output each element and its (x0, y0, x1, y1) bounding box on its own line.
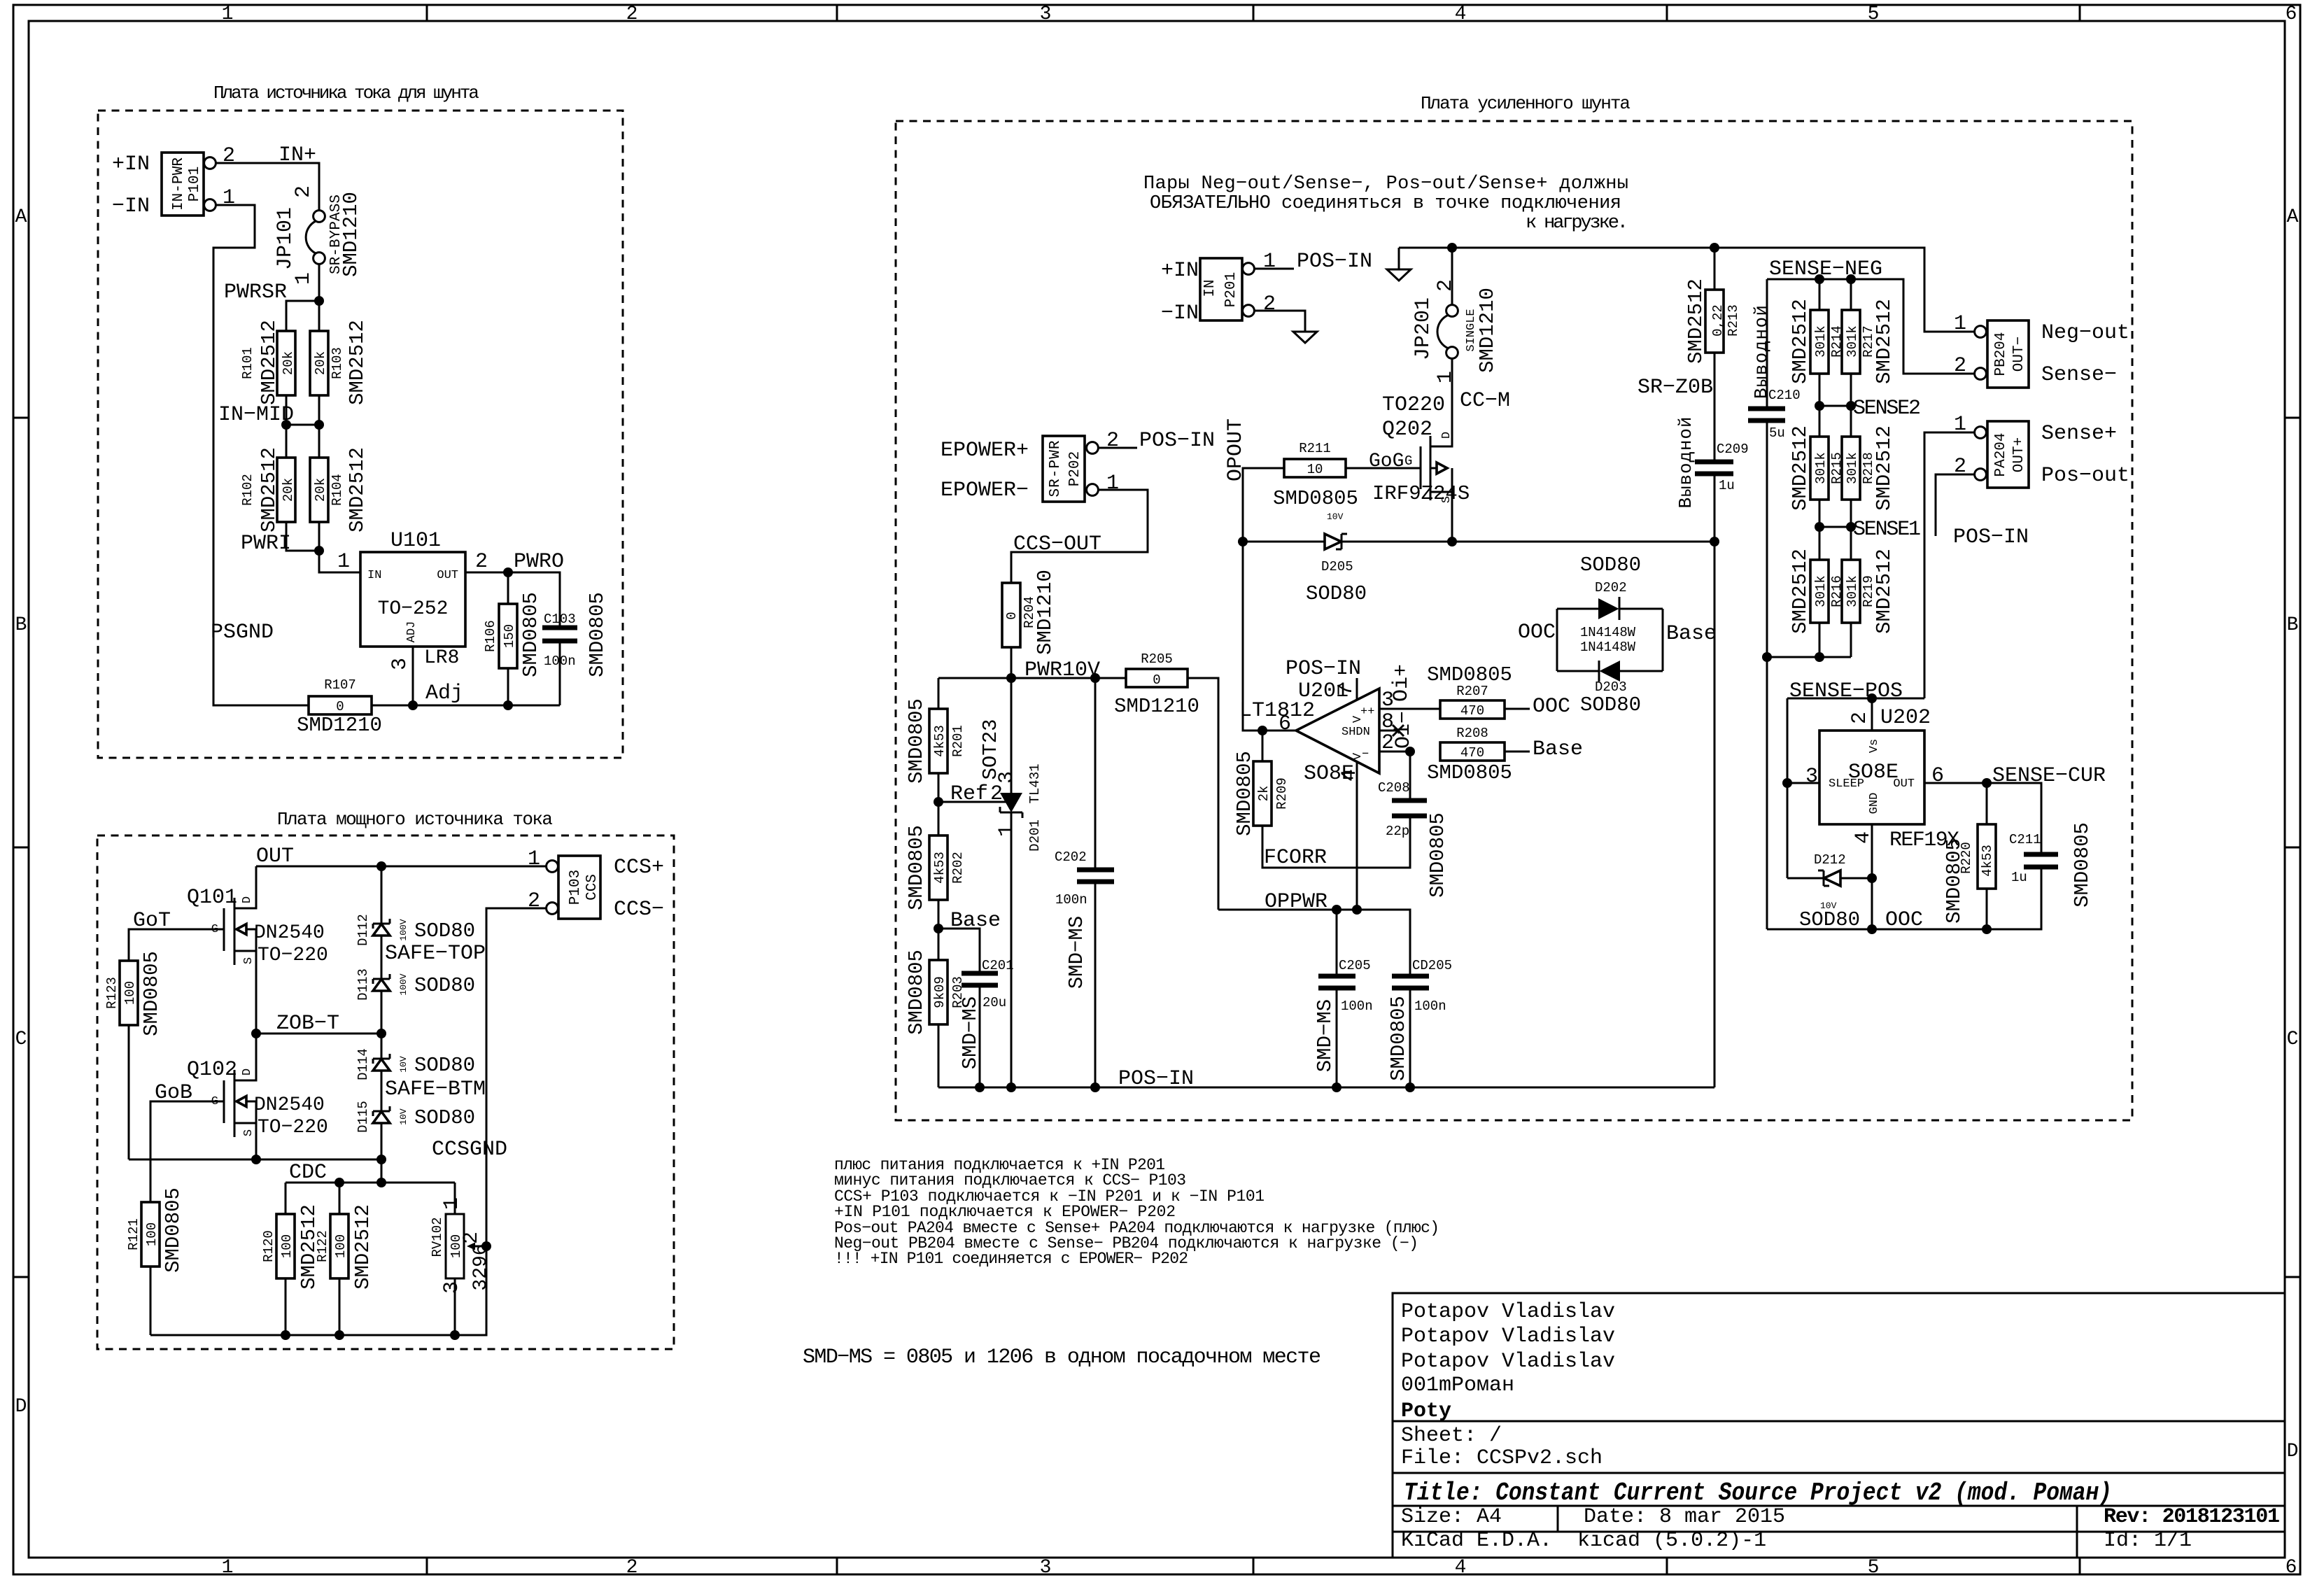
svg-text:JP101: JP101 (274, 207, 297, 270)
wire R123 bottom to CCSGND (128, 1025, 130, 1159)
svg-text:SMD1210: SMD1210 (339, 192, 362, 277)
junction RV102 wiper (481, 1241, 491, 1251)
svg-text:SMD0805: SMD0805 (1273, 487, 1358, 510)
svg-text:LR8: LR8 (424, 647, 459, 669)
svg-text:1: 1 (440, 1197, 464, 1210)
svg-text:301k: 301k (1845, 452, 1860, 484)
svg-text:G: G (1404, 453, 1412, 469)
svg-text:POS−IN: POS−IN (1118, 1067, 1194, 1091)
resistor R123 100 (104, 951, 163, 1036)
svg-text:POS−IN: POS−IN (1297, 250, 1372, 274)
resistor R220 4k53 (1943, 783, 1996, 929)
svg-text:SMD0805: SMD0805 (905, 950, 928, 1035)
svg-text:P201: P201 (1223, 272, 1239, 307)
junction Adj (408, 700, 418, 710)
wire to R213 column (1452, 541, 1714, 543)
resistor R201 4k53 (905, 698, 966, 784)
wire P201 pin2 to ground (1254, 311, 1305, 332)
svg-text:R211: R211 (1299, 441, 1331, 456)
svg-text:TO−220: TO−220 (258, 1117, 328, 1138)
svg-text:OUT−: OUT− (2011, 337, 2027, 372)
svg-text:4: 4 (1455, 3, 1467, 25)
annotation text block (834, 1156, 1439, 1268)
junction OPPWR pin4 (1352, 905, 1362, 915)
svg-text:Potapov Vladislav: Potapov Vladislav (1401, 1350, 1615, 1374)
svg-text:SAFE−BTM: SAFE−BTM (385, 1078, 486, 1101)
wire P201 pin1 (1254, 268, 1294, 270)
svg-text:Sense−: Sense− (2041, 363, 2117, 387)
wire PWRO down to R106 (507, 572, 509, 604)
svg-text:Potapov Vladislav: Potapov Vladislav (1401, 1325, 1615, 1348)
junction PWRSR (314, 296, 324, 306)
wire R121 bottom (150, 1267, 152, 1335)
svg-text:10V: 10V (398, 1056, 409, 1073)
svg-text:D201: D201 (1027, 819, 1043, 852)
svg-text:U101: U101 (390, 529, 441, 553)
svg-text:Плата мощного источника тока: Плата мощного источника тока (277, 809, 553, 830)
capacitor C210 5u (1748, 279, 1801, 657)
svg-text:+IN: +IN (1161, 259, 1199, 283)
svg-text:R101: R101 (240, 347, 255, 379)
svg-text:POS−IN: POS−IN (1139, 429, 1215, 453)
wire PWR10V left down (938, 678, 940, 709)
wire Q102 gate to GoB (150, 1101, 224, 1202)
resistor R205 0 (1114, 651, 1199, 718)
resistor R217 301k (1842, 279, 1896, 406)
wire R202 to Base (938, 900, 940, 929)
svg-text:PWRI: PWRI (241, 532, 291, 556)
svg-text:POS−IN: POS−IN (1953, 526, 2029, 549)
resistor R202 4k53 (905, 825, 966, 910)
svg-text:20k: 20k (313, 478, 328, 502)
svg-text:PSGND: PSGND (211, 621, 274, 644)
frame row ticks left (13, 418, 29, 1277)
junction D212 pin4 (1867, 873, 1877, 883)
resistor R106 150 (483, 592, 542, 677)
svg-text:301k: 301k (1813, 575, 1829, 607)
svg-text:IRF9Z24S: IRF9Z24S (1372, 482, 1470, 505)
svg-text:C210: C210 (1768, 388, 1801, 403)
svg-text:Выводной: Выводной (1675, 417, 1696, 509)
svg-text:1: 1 (222, 1557, 234, 1579)
svg-text:Oi−: Oi− (1392, 711, 1416, 749)
junction OPOUT/D205 (1238, 537, 1248, 546)
svg-text:GND: GND (1868, 793, 1881, 814)
svg-text:R102: R102 (240, 474, 255, 506)
resistor R211 10 (1273, 441, 1358, 510)
pin 6 wire OUT (1924, 782, 1987, 784)
svg-text:TO−220: TO−220 (258, 945, 328, 966)
svg-text:ADJ: ADJ (405, 621, 418, 643)
wire P202 pin1 to CCS-OUT (1011, 490, 1148, 583)
svg-text:SMD2512: SMD2512 (1684, 278, 1707, 364)
svg-text:SMD−MS: SMD−MS (1065, 916, 1088, 989)
svg-text:SMD1210: SMD1210 (297, 714, 382, 737)
svg-text:SMD1210: SMD1210 (1034, 570, 1057, 655)
wire Ref down to R202 (938, 802, 940, 835)
svg-text:SMD0805: SMD0805 (1426, 812, 1449, 898)
resistor R104 20k (310, 447, 369, 532)
board outline: current source board for shunt (98, 111, 623, 758)
svg-text:10V: 10V (398, 1108, 409, 1125)
jumper JP101 (274, 185, 362, 285)
svg-text:S: S (242, 957, 255, 964)
svg-text:7: 7 (1334, 684, 1358, 696)
board outline: amplified shunt board (896, 121, 2132, 1120)
svg-text:2k: 2k (1256, 786, 1272, 802)
svg-text:D: D (15, 1396, 27, 1418)
frame row ticks right (2285, 418, 2300, 1277)
svg-text:EPOWER−: EPOWER− (941, 479, 1029, 502)
svg-text:D205: D205 (1321, 559, 1353, 574)
resistor R213 0,22 (1684, 248, 1741, 462)
top rail wire (1399, 248, 1975, 332)
svg-text:SMD0805: SMD0805 (2071, 822, 2094, 908)
SENSE-NEG rail (1767, 279, 1975, 374)
svg-text:C205: C205 (1339, 958, 1371, 973)
svg-text:2: 2 (1106, 429, 1119, 453)
junction D205/Q202 source (1447, 537, 1457, 546)
svg-text:470: 470 (1460, 745, 1484, 761)
svg-text:100n: 100n (1055, 892, 1087, 908)
wire R211 right to gate (1346, 467, 1421, 470)
wire Q102 drain from ZOB-T (234, 1034, 256, 1080)
svg-text:R107: R107 (324, 677, 356, 693)
svg-text:SENSE−POS: SENSE−POS (1789, 679, 1903, 703)
svg-text:5: 5 (1868, 1557, 1880, 1579)
wire Q101 source down to ZOB-T (255, 929, 258, 1034)
svg-text:1: 1 (292, 272, 316, 285)
resistor R219 301k (1842, 527, 1896, 657)
svg-text:3: 3 (1040, 1557, 1052, 1579)
svg-text:6: 6 (2286, 3, 2297, 25)
svg-text:R121: R121 (126, 1218, 141, 1250)
wires IN-MID to R102/R104 (286, 425, 319, 458)
svg-text:TL431: TL431 (1027, 763, 1043, 803)
svg-text:SLEEP: SLEEP (1829, 777, 1864, 791)
svg-text:100n: 100n (1341, 999, 1373, 1014)
junction PWRI (314, 546, 324, 556)
svg-text:D113: D113 (355, 968, 371, 1001)
svg-text:SMD2512: SMD2512 (258, 320, 281, 405)
svg-text:470: 470 (1460, 703, 1484, 719)
svg-text:R202: R202 (950, 852, 966, 884)
junction PWRO (503, 567, 513, 577)
wire Ref to D201 (938, 801, 1011, 803)
svg-text:1u: 1u (2011, 870, 2027, 885)
svg-text:IN-PWR: IN-PWR (171, 157, 187, 211)
svg-text:6: 6 (1279, 712, 1291, 736)
svg-text:File: CCSPv2.sch: File: CCSPv2.sch (1401, 1446, 1603, 1470)
junction C210 bottom (1762, 652, 1772, 662)
connector P202 SR-PWR (1043, 429, 1119, 502)
svg-text:−: − (1362, 748, 1369, 761)
junction SENSE2 left (1815, 401, 1824, 411)
svg-text:CC−M: CC−M (1460, 389, 1510, 413)
svg-text:R207: R207 (1456, 684, 1488, 699)
capacitor CD205 100n (1387, 958, 1452, 1087)
svg-text:SMD0805: SMD0805 (1427, 761, 1512, 784)
svg-text:SMD1210: SMD1210 (1476, 288, 1499, 373)
svg-text:PWRO: PWRO (514, 550, 564, 574)
svg-text:KiCad E.D.A. kicad (5.0.2)-1: KiCad E.D.A. kicad (5.0.2)-1 (1401, 1529, 1766, 1553)
svg-text:1: 1 (995, 824, 1019, 837)
svg-text:Potapov Vladislav: Potapov Vladislav (1401, 1300, 1615, 1324)
svg-text:C209: C209 (1717, 442, 1749, 457)
svg-text:1u: 1u (1719, 478, 1735, 493)
svg-text:2: 2 (1434, 279, 1458, 292)
svg-text:SMD−MS = 0805 и 1206 в одном п: SMD−MS = 0805 и 1206 в одном посадочном … (803, 1346, 1321, 1369)
resistor R121 100 (126, 1187, 185, 1273)
wire JP201 pin1 to Q202 drain (1430, 359, 1452, 446)
regulator U101 LR8 TO-252 (360, 529, 465, 669)
svg-text:S: S (242, 1129, 255, 1136)
svg-text:SMD0805: SMD0805 (1943, 838, 1966, 924)
frame column ticks top (427, 5, 2080, 21)
svg-text:ZOB−T: ZOB−T (276, 1012, 339, 1036)
svg-text:SR-PWR: SR-PWR (1048, 440, 1064, 497)
svg-text:D202: D202 (1595, 580, 1627, 595)
svg-text:P103: P103 (568, 870, 584, 905)
zener D212 10V SOD80 (1787, 852, 1872, 931)
svg-text:SOD80: SOD80 (1306, 582, 1367, 605)
svg-text:100: 100 (144, 1222, 160, 1246)
svg-text:DN2540: DN2540 (254, 922, 325, 944)
svg-text:OOC: OOC (1533, 695, 1570, 719)
svg-text:6: 6 (1931, 764, 1944, 788)
resistor R102 20k (240, 447, 296, 532)
resistor R207 470 (1427, 663, 1512, 719)
svg-text:SMD2512: SMD2512 (1873, 299, 1896, 384)
svg-text:A: A (15, 206, 27, 228)
resistor R209 2k (1233, 731, 1290, 836)
junction SENSE1 left (1815, 522, 1824, 532)
wire P101 pin1 to PSGND rail (213, 205, 309, 705)
svg-text:SMD0805: SMD0805 (905, 698, 928, 784)
svg-text:1: 1 (1954, 312, 1966, 336)
svg-text:C: C (15, 1029, 27, 1050)
svg-text:CCS−OUT: CCS−OUT (1013, 532, 1101, 556)
svg-text:0: 0 (1153, 672, 1160, 688)
resistor R208 470 (1427, 726, 1512, 784)
resistor R214 301k (1789, 279, 1845, 406)
SENSE1 wire (1819, 526, 1851, 528)
OUT rail wire (256, 866, 547, 868)
svg-text:SENSE1: SENSE1 (1853, 518, 1921, 542)
svg-text:IN: IN (1202, 279, 1218, 297)
svg-text:SOD80: SOD80 (414, 919, 475, 943)
svg-text:20u: 20u (983, 995, 1006, 1010)
wire PA204 pin2 to POS-IN (1936, 474, 1975, 536)
wire diodes to CDC rail (381, 1159, 383, 1183)
svg-text:2: 2 (528, 889, 540, 913)
zener D205 SOD80 (1243, 512, 1452, 605)
svg-text:Id: 1/1: Id: 1/1 (2104, 1529, 2192, 1553)
junction CCSGND Q102 (251, 1155, 261, 1164)
svg-text:0: 0 (1004, 612, 1020, 619)
svg-text:R213: R213 (1726, 304, 1741, 337)
svg-text:C208: C208 (1378, 780, 1410, 796)
pin 3 stem U101 ADJ (412, 647, 414, 705)
svg-text:Rev: 2018123101: Rev: 2018123101 (2104, 1505, 2280, 1529)
svg-text:CD205: CD205 (1412, 958, 1452, 973)
wire to R103 (318, 301, 321, 331)
svg-text:Pos−out: Pos−out (2041, 464, 2129, 488)
wire R211 left / OPOUT vertical (1243, 468, 1296, 731)
OPPWR rail (1218, 910, 1410, 976)
svg-text:OPOUT: OPOUT (1224, 418, 1248, 481)
wire R106 bottom (507, 668, 509, 705)
svg-text:Vs: Vs (1868, 739, 1881, 753)
diode clamp block D202/D203 (1518, 553, 1717, 717)
svg-text:10V: 10V (1327, 512, 1344, 522)
svg-text:B: B (2287, 614, 2299, 636)
junction bottom R120 (281, 1330, 290, 1340)
svg-text:PWRSR: PWRSR (224, 281, 287, 304)
svg-text:D: D (241, 1068, 254, 1075)
svg-text:+IN: +IN (112, 153, 150, 176)
svg-text:SENSE−CUR: SENSE−CUR (1992, 764, 2106, 788)
svg-text:5u: 5u (1769, 425, 1785, 441)
svg-text:SMD1210: SMD1210 (1114, 695, 1199, 718)
svg-text:SMD0805: SMD0805 (162, 1187, 185, 1273)
svg-text:Q102: Q102 (187, 1058, 237, 1082)
svg-text:SENSE−NEG: SENSE−NEG (1769, 258, 1882, 281)
svg-text:6: 6 (2286, 1557, 2297, 1579)
svg-text:3: 3 (440, 1281, 464, 1294)
svg-text:−IN: −IN (1161, 302, 1199, 325)
wire to R101 (286, 301, 319, 331)
wire R204 bottom (1010, 647, 1013, 678)
wire R107 to Adj junction (372, 705, 560, 707)
svg-text:Base: Base (1533, 738, 1583, 761)
svg-text:SMD2512: SMD2512 (258, 447, 281, 532)
svg-text:1: 1 (528, 847, 540, 871)
svg-text:SMD0805: SMD0805 (1387, 996, 1410, 1081)
svg-text:CCS−: CCS− (614, 898, 664, 922)
svg-text:!!! +IN P101 соединяется с EPO: !!! +IN P101 соединяется с EPOWER− P202 (834, 1250, 1188, 1268)
svg-text:CDC: CDC (289, 1161, 327, 1185)
svg-text:SAFE−TOP: SAFE−TOP (385, 942, 486, 966)
resistor R103 20k (310, 320, 369, 405)
resistor R204 0 (1002, 570, 1057, 655)
junction POS-IN C205 (1332, 1082, 1341, 1092)
resistor R101 20k (240, 320, 296, 405)
junction bottom RV102 (450, 1330, 460, 1340)
svg-text:R201: R201 (950, 725, 966, 757)
svg-text:OUT+: OUT+ (2011, 437, 2027, 472)
SENSE2 wire (1819, 405, 1851, 407)
svg-text:A: A (2287, 206, 2299, 228)
junction Base (934, 924, 943, 933)
svg-text:SMD2512: SMD2512 (346, 320, 369, 405)
junction SENSE2 right (1846, 401, 1856, 411)
pin 2 stub (1379, 751, 1410, 753)
junction CCSGND diodes (376, 1155, 386, 1164)
svg-text:1N4148W: 1N4148W (1580, 625, 1636, 640)
svg-text:D203: D203 (1595, 679, 1627, 695)
svg-text:Base: Base (1666, 622, 1717, 646)
svg-text:10: 10 (1307, 462, 1323, 477)
svg-text:SOD80: SOD80 (1799, 908, 1860, 931)
resistor R218 301k (1842, 406, 1896, 527)
svg-text:Q202: Q202 (1382, 418, 1432, 442)
board outline: power current source board (97, 835, 674, 1349)
svg-text:OPPWR: OPPWR (1265, 890, 1328, 914)
junction pin2/C208 (1405, 747, 1415, 756)
svg-text:SMD0805: SMD0805 (586, 592, 609, 677)
svg-text:R122: R122 (315, 1230, 330, 1262)
svg-text:100V: 100V (398, 919, 409, 940)
svg-text:LT1812: LT1812 (1239, 699, 1315, 723)
junction SLEEP (1782, 778, 1792, 788)
svg-text:20k: 20k (281, 478, 296, 502)
wire U101 OUT to PWRO (465, 572, 560, 628)
svg-text:SOT23: SOT23 (979, 719, 1002, 780)
transistor Q202 IRF9Z24S (1372, 393, 1470, 505)
svg-text:4k53: 4k53 (932, 725, 948, 757)
svg-text:SMD2512: SMD2512 (1873, 549, 1896, 634)
svg-text:SENSE2: SENSE2 (1853, 397, 1921, 421)
wire SENSE-CUR to C211 (1987, 783, 2041, 854)
junction SENSE-CUR R220 (1982, 778, 1992, 788)
wire Base down to R203 (938, 929, 940, 960)
svg-text:B: B (15, 614, 27, 636)
svg-text:Выводной: Выводной (1751, 305, 1772, 399)
svg-text:Oi+: Oi+ (1390, 664, 1414, 702)
svg-text:SOD80: SOD80 (1580, 553, 1641, 577)
resistor R203 9k09 (905, 950, 966, 1035)
svg-text:100V: 100V (398, 973, 409, 995)
junction R216 bottom (1815, 652, 1824, 662)
junction PWR10V R204 (1006, 673, 1016, 683)
svg-text:R106: R106 (483, 620, 498, 652)
svg-text:150: 150 (502, 624, 517, 648)
junction pin6/R209 (1258, 726, 1267, 735)
OOC rail (1767, 867, 2041, 929)
wire P101 pin2 to JP101 (216, 163, 319, 211)
capacitor C208 22p (1378, 752, 1449, 898)
pin 8 stub no-connect (1379, 730, 1398, 732)
svg-text:OUT: OUT (256, 845, 294, 868)
svg-text:SMD2512: SMD2512 (351, 1204, 374, 1290)
svg-text:P101: P101 (187, 167, 203, 202)
wire R207 right (1505, 708, 1530, 710)
svg-text:4k53: 4k53 (1980, 845, 1995, 877)
svg-text:2: 2 (1848, 712, 1872, 724)
svg-text:POS−IN: POS−IN (1286, 657, 1361, 681)
wire R201 to Ref (938, 773, 940, 802)
svg-text:SOD80: SOD80 (414, 1106, 475, 1129)
svg-text:PA204: PA204 (1993, 432, 2009, 477)
svg-text:20k: 20k (313, 351, 328, 375)
svg-text:SMD−MS: SMD−MS (959, 996, 982, 1069)
svg-text:D115: D115 (355, 1101, 371, 1133)
svg-text:SOD80: SOD80 (1580, 693, 1641, 717)
svg-text:R209: R209 (1274, 777, 1290, 810)
svg-text:100: 100 (122, 981, 138, 1005)
junction C202 (1090, 1082, 1100, 1092)
svg-text:0: 0 (336, 699, 344, 714)
PWR10V rail (938, 677, 1126, 679)
svg-text:Title: Constant Current Source: Title: Constant Current Source Project v… (1404, 1479, 2112, 1507)
svg-text:2: 2 (292, 185, 316, 198)
svg-text:RV102: RV102 (430, 1217, 445, 1257)
svg-text:R103: R103 (330, 347, 345, 379)
svg-text:D: D (2287, 1441, 2299, 1462)
CDC rail (286, 1182, 455, 1184)
svg-text:001mРоман: 001mРоман (1401, 1374, 1514, 1397)
